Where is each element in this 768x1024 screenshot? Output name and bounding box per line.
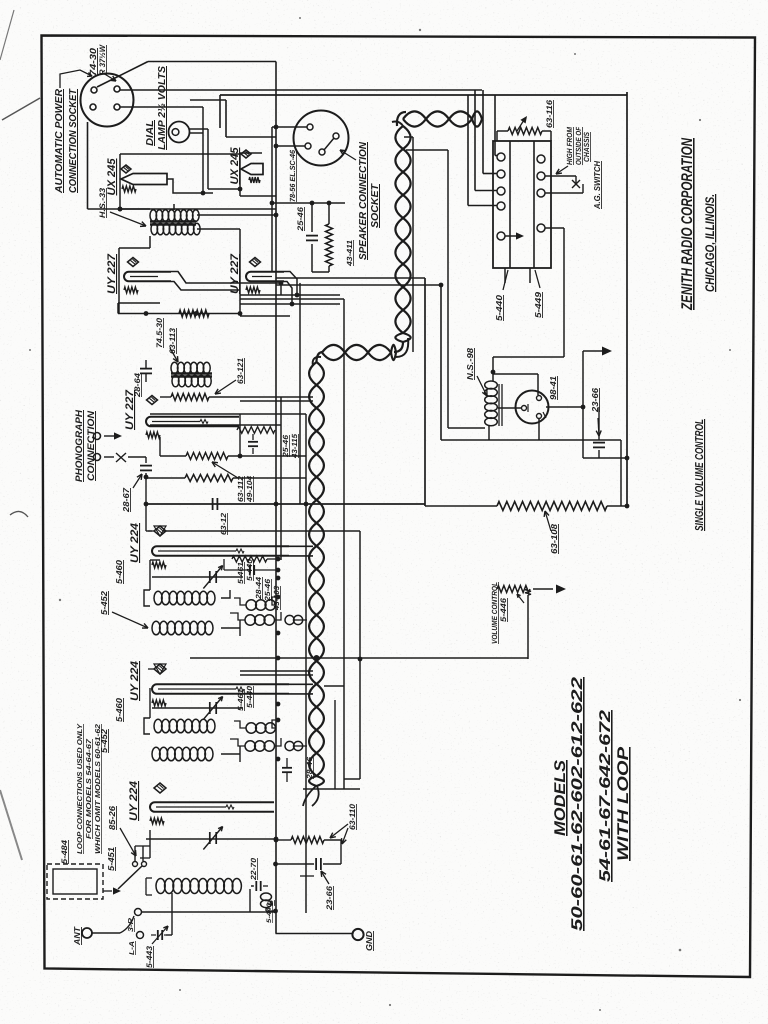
tube UX245-1 heater zigzag [122, 186, 136, 192]
svg-text:63-116: 63-116 [545, 99, 554, 128]
wires stage B right [221, 753, 240, 755]
svg-text:23-66: 23-66 [325, 885, 334, 911]
contact risers [134, 846, 136, 861]
power socket P1 circle [81, 74, 134, 127]
wire y272 [312, 271, 329, 273]
svg-text:VOLUME CONTROL: VOLUME CONTROL [490, 582, 499, 644]
wire x344 [343, 299, 345, 789]
power transformer block outline [493, 141, 551, 268]
phono terminal 1 [94, 433, 101, 440]
leader 5-440 [503, 270, 508, 290]
tuning capacitor C-A [209, 571, 211, 583]
tube UY227-1 cathode hairpin [124, 272, 171, 282]
antenna coil big [156, 879, 165, 894]
leader to socket [103, 73, 116, 81]
bundle wire y295 [240, 294, 340, 296]
capacitor 28-64 [140, 368, 152, 370]
resistor 43-411 [328, 203, 330, 224]
resistor 63-112 [186, 453, 228, 460]
volume control wiper [517, 594, 524, 603]
wire x583 [582, 351, 584, 458]
tiny coil B3 [285, 741, 294, 750]
junction y659 [358, 657, 363, 662]
riser x172 [171, 893, 173, 912]
tube UY224 third cathode hairpin [150, 802, 274, 812]
wire ant [92, 932, 120, 934]
svg-text:50-60-61-62-602-612-622: 50-60-61-62-602-612-622 [569, 676, 586, 931]
svg-text:CHICAGO, ILLINOIS.: CHICAGO, ILLINOIS. [703, 194, 717, 292]
wire drop x468 [467, 95, 469, 206]
pt arrow [505, 235, 518, 237]
capacitor 28-67 [140, 465, 152, 467]
tube UY224 second grid wire [158, 688, 236, 690]
twisted pair bend mid [394, 342, 403, 352]
tube UX245-1 envelope wires [119, 154, 121, 209]
pt pin R2 [537, 172, 545, 180]
small coil A1 [246, 600, 256, 610]
svg-text:UY 224: UY 224 [128, 781, 140, 821]
phono terminal 2 [94, 454, 101, 461]
resistor on y313 [179, 310, 209, 317]
svg-text:UY 224: UY 224 [129, 523, 141, 563]
tube UY227-1 grid diamond [128, 258, 139, 267]
coil A1 steps [272, 597, 278, 605]
svg-text:H.S.-33: H.S.-33 [98, 187, 107, 218]
wire lamp right a [190, 128, 209, 130]
wire y137 [226, 136, 276, 138]
svg-text:43-103: 43-103 [272, 585, 281, 611]
terminal L-A [137, 932, 144, 939]
tube UX245-2 heater zigzag [249, 177, 260, 183]
tube UY224 second cathode hairpin [152, 684, 289, 694]
tube UY227-1 step wires [171, 272, 281, 284]
speaker pin 4 [333, 133, 339, 139]
heater pair A ext [289, 545, 313, 547]
cable wire x413 [404, 136, 413, 138]
capacitor 23-66 psu [593, 442, 605, 444]
wire drop x475 [474, 90, 476, 191]
capacitor 23-66b [282, 767, 292, 769]
junction [118, 207, 123, 212]
twisted pair end hooks [303, 786, 316, 806]
svg-text:UY 224: UY 224 [129, 661, 141, 701]
bus rail y95 [220, 94, 627, 96]
bus wire y90 [120, 89, 482, 91]
svg-text:63-12: 63-12 [219, 512, 228, 535]
wire stage C [251, 885, 253, 887]
tube UY224 third grid wire [156, 806, 226, 808]
leader 63-110b [342, 828, 348, 844]
twisted pair bend mid2 [317, 352, 324, 362]
chassis bottom wire right seg [607, 505, 627, 507]
wire osc top [492, 357, 494, 381]
speaker pin 2 [305, 143, 311, 149]
resistor 63-121 [171, 394, 209, 401]
scan artifact bottom-left shadow [0, 790, 22, 860]
wire pt R2 right [545, 192, 583, 194]
svg-text:5-443: 5-443 [145, 945, 154, 968]
coil A2 steps [275, 612, 281, 620]
tube UY224 second grid diamond [154, 664, 166, 674]
svg-text:GND: GND [364, 931, 374, 951]
power transformer inner line 2 [533, 141, 535, 268]
twisted pair horizontal top [403, 111, 482, 126]
small coil B2 [245, 741, 255, 751]
svg-text:25-46: 25-46 [263, 578, 272, 602]
svg-text:SPEAKER CONNECTION: SPEAKER CONNECTION [358, 141, 369, 260]
capacitor 49-115 [252, 434, 254, 440]
wire pt R4 right [545, 227, 564, 229]
wire filament bus y313 [118, 313, 240, 315]
svg-text:UX 245: UX 245 [106, 158, 118, 196]
capacitor 63-120 [212, 498, 214, 510]
pt pin R4 [537, 224, 545, 232]
bus wire y100 [190, 99, 226, 101]
RF coil B row2 [152, 747, 160, 761]
tube UY224 third grid diamond [154, 783, 166, 793]
tube UY224 third heater zigzag [150, 818, 164, 824]
leader 23-66g [321, 871, 329, 884]
x mark switch [572, 180, 580, 188]
wire y876 [300, 875, 314, 877]
leader from label [60, 70, 92, 88]
svg-text:43-411: 43-411 [345, 240, 354, 267]
svg-text:SINGLE VOLUME CONTROL: SINGLE VOLUME CONTROL [694, 419, 706, 531]
small coil A2 [245, 615, 255, 625]
svg-text:98-41: 98-41 [548, 376, 558, 400]
wire y458 [583, 457, 627, 459]
svg-text:5-460: 5-460 [114, 560, 124, 584]
wire drop x495 [494, 95, 496, 156]
wire x360 [359, 531, 361, 779]
bus x272 [271, 127, 273, 272]
svg-text:A.G. SWITCH: A.G. SWITCH [592, 160, 602, 210]
volume control arrow [533, 588, 553, 590]
resistor 63-108 long [497, 502, 607, 511]
power socket pin 3 [90, 104, 96, 110]
bundle wire y316 [240, 315, 290, 317]
cable wire x448 [406, 149, 448, 151]
wire lamp drop a [202, 107, 204, 193]
svg-text:78-56 EL.SC-46: 78-56 EL.SC-46 [288, 149, 297, 202]
svg-text:5-449: 5-449 [533, 292, 543, 318]
heater pair B ext [289, 683, 313, 685]
wire y278 [276, 277, 425, 279]
wire 63-116 left [496, 131, 498, 141]
svg-text:UY 227: UY 227 [124, 389, 136, 430]
wire y189 [208, 188, 240, 190]
leader 85-26 5-451 [120, 828, 136, 856]
bus wire y107 [120, 106, 203, 108]
tube UY224 first heater zigzag [152, 562, 166, 568]
twisted pair bend top [397, 112, 406, 126]
B+ arrow [583, 350, 602, 352]
svg-text:LOOP CONNECTIONS USED ONLY: LOOP CONNECTIONS USED ONLY [77, 723, 84, 854]
leader 5-449 [535, 270, 540, 288]
tube UY224 first grid lead [148, 530, 154, 532]
grid bus y531 [163, 530, 360, 532]
transformer secondary leads [504, 268, 506, 283]
scan artifact top-left page edge [2, 98, 40, 120]
svg-text:5-451: 5-451 [106, 847, 116, 871]
wire x621 [620, 440, 622, 506]
dial lamp circle [169, 122, 190, 143]
svg-text:AUTOMATIC POWER: AUTOMATIC POWER [54, 88, 65, 194]
resistor 28-44a [232, 556, 267, 562]
detector bus y425 [150, 424, 281, 426]
bus y504 long [146, 503, 425, 505]
IF transformer coil row 1 [171, 362, 178, 374]
bus wire y61 [148, 61, 276, 63]
wire y209 long [120, 208, 276, 210]
tube UY227-3 heater zigzag [146, 432, 160, 438]
coil B1 steps [272, 720, 278, 728]
wire pin1 diagonal [97, 62, 148, 88]
tube UX245-2 box [239, 153, 241, 196]
tube UY227-1 heater zigzag [124, 287, 138, 293]
wire coil to pin [498, 407, 521, 409]
wire y779 [344, 778, 360, 780]
terminal 3-R [135, 909, 142, 916]
bundle wire y299 [240, 298, 344, 300]
tuned line C [146, 838, 276, 840]
svg-text:UX 245: UX 245 [229, 147, 241, 185]
wire drop x226 [225, 100, 227, 137]
svg-text:5-440: 5-440 [494, 295, 504, 321]
wire socket right [546, 406, 583, 408]
pt pin R1 [537, 155, 545, 163]
leader high from [556, 166, 568, 174]
svg-text:85-26: 85-26 [107, 806, 117, 830]
leader ns98 [477, 376, 487, 396]
power socket pin 4 [114, 104, 120, 110]
tube UY227-2 heater zigzag [246, 287, 260, 293]
capacitor 23-66 gnd [315, 858, 317, 870]
transformer T1 core band [150, 220, 196, 223]
capacitor 22-70 [255, 881, 257, 891]
wire socket bottom [538, 419, 540, 440]
GND terminal [352, 929, 363, 940]
tube UY227-3 grid diamond [147, 396, 158, 405]
pt pin L1 [497, 153, 505, 161]
tube UY227-3 grid wire [152, 421, 200, 423]
svg-text:22-70: 22-70 [249, 857, 258, 881]
riser x250 [249, 889, 251, 912]
bus dots B [276, 702, 281, 707]
svg-text:74-30: 74-30 [88, 48, 98, 76]
wire y401 [240, 400, 313, 402]
leader 63-121 [215, 380, 236, 394]
tube UY227-2 cathode hairpin [246, 272, 284, 282]
svg-text:5-440: 5-440 [266, 903, 273, 923]
junction ux1 [118, 207, 123, 212]
wire plate staircase [167, 179, 213, 193]
stage B pair [240, 670, 313, 672]
speaker switch blade [324, 138, 334, 150]
svg-text:N.S.-98: N.S.-98 [465, 348, 475, 380]
volume control resistor 5-446 [525, 589, 531, 595]
switch contact a [133, 862, 138, 867]
wire vc corner [527, 595, 529, 659]
ANT terminal [82, 928, 92, 938]
svg-text:5-440: 5-440 [245, 558, 254, 581]
capacitor 25-46 [311, 203, 313, 232]
svg-text:63-112: 63-112 [236, 475, 245, 502]
tube UY227-2 step wires [284, 272, 297, 296]
tube UY224 first grid diamond [154, 526, 166, 536]
pt pin R3 [537, 189, 545, 197]
scan artifact left margin curve [10, 511, 28, 517]
tube UY224 second grid lead [148, 668, 154, 670]
chassis bottom wire left seg [425, 505, 497, 507]
wire uy1 left [118, 248, 120, 314]
speaker pin 3 [319, 149, 325, 155]
svg-text:CONNECTION: CONNECTION [86, 410, 97, 481]
tube UY224 first grid wire [158, 550, 236, 552]
pt pin L3 [497, 187, 505, 195]
bus dots A [276, 576, 281, 581]
svg-text:5-461: 5-461 [236, 562, 245, 584]
wire coil C left [146, 877, 152, 879]
leader 5-452 [112, 612, 148, 628]
svg-text:UY 227: UY 227 [106, 253, 118, 294]
resistor 25-46b [237, 427, 275, 434]
svg-text:5-446: 5-446 [499, 597, 508, 622]
verticals detector [239, 414, 241, 456]
svg-text:5-484: 5-484 [60, 839, 69, 864]
wire uy2 frame [239, 229, 241, 314]
wire y864 cap [276, 863, 315, 865]
detector bus y414 [150, 413, 306, 415]
wire x599 [598, 407, 600, 440]
svg-text:5-460: 5-460 [114, 698, 124, 722]
junction step [279, 281, 284, 286]
tuned line B [152, 707, 243, 709]
switch blade C [118, 866, 142, 889]
chassis boundary right wire [626, 92, 628, 506]
svg-text:L-A: L-A [129, 941, 136, 955]
resistor 49-104 [185, 475, 233, 482]
wire coilA [144, 590, 150, 606]
svg-text:FOR MODELS 54-64-67: FOR MODELS 54-64-67 [86, 738, 93, 839]
svg-text:LAMP 2½ VOLTS: LAMP 2½ VOLTS [157, 66, 168, 150]
svg-text:PHONOGRAPH: PHONOGRAPH [74, 409, 85, 482]
capacitor 28-44 [249, 565, 251, 575]
wire coilB [144, 718, 150, 734]
wire lamp right b [190, 132, 204, 134]
B coil 5-440 [261, 893, 272, 901]
wire y303 [118, 302, 160, 304]
speaker pin 1 [307, 124, 313, 130]
svg-text:SOCKET: SOCKET [370, 183, 381, 228]
power socket pin 2 [114, 86, 120, 92]
svg-text:CHASSIS: CHASSIS [582, 132, 591, 162]
svg-text:ZENITH RADIO CORPORATION: ZENITH RADIO CORPORATION [679, 137, 696, 310]
leader if2 [170, 348, 178, 362]
svg-text:25-46: 25-46 [281, 434, 290, 458]
tuned line A [152, 576, 243, 578]
tube UY224 second heater zigzag [152, 700, 166, 706]
tube UX245-2 grid diamond [241, 150, 251, 158]
RF coil A row2 [152, 621, 160, 635]
oscillator coil N.S.-98 [485, 381, 498, 389]
svg-text:63-113: 63-113 [168, 327, 177, 354]
wire y203 under speaker [272, 202, 345, 204]
leader 28-67 [133, 474, 142, 488]
wire osc bottom [488, 426, 490, 440]
wire y840 right [324, 839, 341, 841]
bus x276 top [275, 62, 277, 147]
svg-text:5-461: 5-461 [236, 689, 245, 711]
wire socket bottom run [87, 122, 89, 209]
tube UY224 first cathode hairpin [152, 546, 289, 556]
wire x425 vertical [424, 278, 426, 506]
wire T1 bottom [149, 236, 151, 248]
phono x mark [116, 453, 126, 462]
wire x306 rf bus [305, 504, 307, 913]
svg-text:43-115: 43-115 [290, 433, 299, 459]
junction phono [144, 475, 149, 480]
dial lamp inner [172, 129, 179, 136]
svg-text:49-104: 49-104 [245, 475, 254, 503]
wire y374 [493, 373, 538, 375]
svg-text:ANT: ANT [72, 926, 82, 946]
wire y428 [448, 427, 485, 429]
svg-text:5-452: 5-452 [99, 591, 109, 615]
wire grid lead A [146, 530, 152, 532]
wire y285 [276, 284, 441, 286]
tube UX245-1 plate [121, 174, 167, 185]
svg-text:CONNECTION SOCKET: CONNECTION SOCKET [68, 88, 79, 193]
wire drop x220 [219, 95, 221, 128]
socket 98-41 pins [522, 406, 527, 411]
svg-text:MODELS: MODELS [552, 759, 569, 836]
leader 63-110a [330, 824, 348, 838]
bundle wire y304 [240, 303, 340, 305]
junction right [625, 456, 630, 461]
svg-text:DIAL: DIAL [145, 120, 156, 146]
wires stage A right [221, 627, 240, 629]
pt pin L4 [497, 202, 505, 210]
tuning capacitor C-B [209, 702, 211, 714]
wire x335 [334, 700, 336, 789]
tuning capacitor C-C [209, 832, 211, 844]
IF transformer core band [171, 372, 212, 374]
tube UY227-2 grid diamond [250, 258, 261, 267]
wire speaker left b [276, 145, 305, 147]
wire speaker left a [272, 126, 307, 128]
transformer T1 secondary coil [151, 223, 158, 235]
tube UY227-3 cathode hairpin [146, 417, 239, 427]
wire bottom bus y913 [142, 911, 276, 913]
twisted pair vertical upper [395, 126, 410, 342]
switch contact b [142, 862, 147, 867]
pt pin L5 [497, 232, 505, 240]
RF coil B row1 [154, 719, 162, 733]
pt pin L2 [497, 170, 505, 178]
transformer T1 center lead [173, 204, 175, 210]
wire y658 long [190, 657, 528, 659]
RF coil A row1 [154, 591, 162, 605]
resistor 63-116 [497, 130, 508, 132]
leader HS33 to T1 [110, 212, 146, 226]
small coil B1 [246, 723, 256, 733]
svg-text:54-61-67-642-672: 54-61-67-642-672 [597, 709, 614, 882]
leader 63-108 [545, 511, 551, 531]
wire gnd [276, 933, 353, 935]
junction dots bus [274, 502, 279, 507]
svg-text:WITH LOOP: WITH LOOP [615, 746, 632, 861]
